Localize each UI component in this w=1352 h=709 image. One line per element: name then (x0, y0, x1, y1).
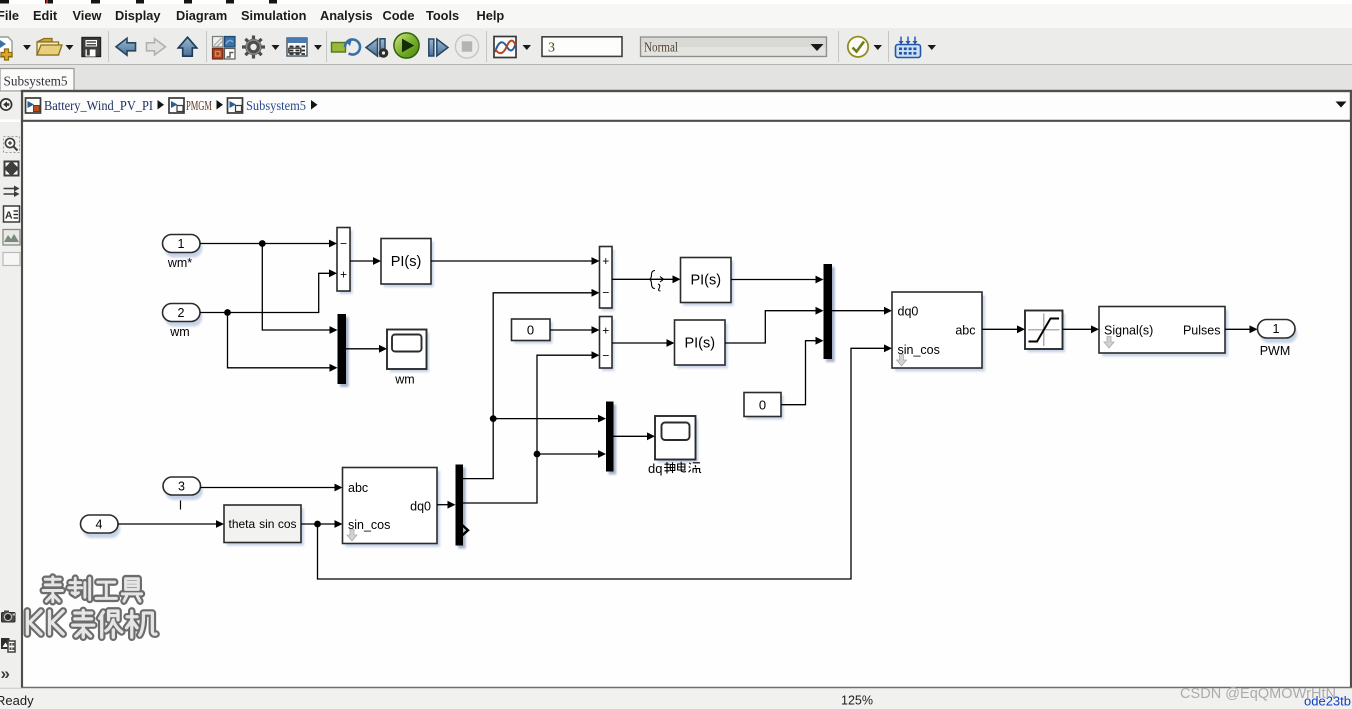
dq0 to abc transform block (892, 292, 985, 371)
wire: constant0 to sum3 plus (550, 329, 592, 331)
dropdown arrow (66, 45, 74, 50)
wire: PI1 to sum2 plus (431, 260, 592, 262)
icon: update model (332, 39, 360, 54)
svg-text:+: + (602, 254, 609, 268)
svg-text:PI(s): PI(s) (391, 254, 422, 270)
wire: inport1 to sum1 minus (200, 243, 330, 245)
tab Subsystem5 (0, 69, 74, 92)
svg-text:−: − (602, 286, 609, 300)
sum block 2 (600, 247, 615, 312)
svg-text:Ready: Ready (0, 693, 34, 708)
left sidebar (0, 122, 21, 688)
svg-text:Help: Help (477, 8, 505, 23)
wire: demux out1 up to sum2 minus (463, 293, 592, 479)
icon: gear (242, 36, 265, 59)
signal label marker on sum2-PI2 wire (650, 271, 664, 292)
sidebar icon: image grid (1, 638, 15, 652)
status bar (0, 689, 1352, 709)
sidebar icon: annotation A (4, 206, 20, 222)
svg-text:dq: dq (648, 461, 662, 476)
svg-text:Signal(s): Signal(s) (1104, 324, 1153, 338)
wire: branch q-current to mux3 bottom (537, 453, 599, 455)
svg-text:PI(s): PI(s) (690, 273, 721, 289)
breadcrumb model icon 3 (228, 98, 243, 113)
icon: forward arrow (disabled) (147, 39, 166, 55)
sidebar icon: zoom magnifier (4, 137, 20, 153)
sidebar icon: fit to view (4, 161, 20, 177)
svg-text:I: I (179, 499, 182, 513)
wire: mux2 to dq0 input (832, 310, 885, 312)
junction dots (224, 240, 540, 527)
icon: step forward (429, 39, 448, 56)
svg-text:Diagram: Diagram (176, 8, 227, 23)
svg-text:dq0: dq0 (410, 500, 431, 514)
dropdown arrow (523, 45, 532, 50)
wire: abcdq0 out to demux (437, 504, 448, 506)
sidebar icon: camera (2, 611, 16, 623)
svg-text:Display: Display (115, 8, 161, 23)
svg-text:sin cos: sin cos (259, 517, 296, 531)
mode combo box (641, 37, 827, 57)
svg-text:Simulation: Simulation (241, 8, 307, 23)
icon: open folder (37, 39, 62, 56)
scope dq currents (655, 416, 698, 463)
svg-text:PMGM: PMGM (186, 98, 212, 113)
outport 1 PWM (1258, 320, 1298, 359)
watermark KK recorder line2 (27, 610, 156, 637)
wire: inport4 to theta block (118, 523, 217, 525)
breadcrumb bar (24, 93, 1350, 120)
svg-text:File: File (0, 8, 19, 23)
svg-text:dq0: dq0 (898, 305, 919, 319)
sidebar icon: blank box (3, 253, 20, 266)
inport 2 (163, 304, 203, 340)
wire: inport2 to sum1 plus (200, 273, 330, 312)
icon: pacing keyboard (896, 37, 921, 58)
wire: sum1 to PI1 (350, 260, 374, 262)
PI controller 3 (675, 320, 728, 368)
svg-text:125%: 125% (841, 694, 873, 708)
svg-text:A: A (5, 210, 13, 222)
inport 3 (163, 477, 203, 513)
svg-text:1: 1 (178, 237, 185, 251)
svg-text:Normal: Normal (644, 40, 678, 55)
saturation block (1025, 311, 1065, 353)
icon: save floppy (82, 38, 101, 57)
svg-text:abc: abc (348, 481, 368, 495)
dropdown arrow (23, 45, 31, 50)
wire: branch theta down along bottom and up to dq0abc sin_cos (318, 348, 885, 579)
svg-text:1: 1 (1273, 322, 1280, 336)
constant 0 (d-ref) (512, 319, 553, 344)
sidebar icon: image (3, 230, 20, 246)
svg-text:»: » (1, 664, 10, 683)
scope label dq-axis current (CJK) (648, 461, 701, 476)
svg-text:3: 3 (178, 480, 185, 494)
wire: PWM generator to outport (1225, 328, 1250, 330)
svg-text:Edit: Edit (33, 8, 58, 23)
dropdown arrow (272, 45, 280, 50)
wire: demux out2 up to sum3 minus (463, 355, 592, 503)
svg-text:abc: abc (955, 324, 975, 338)
wire: abc out to saturation (982, 328, 1018, 330)
wire: PI2 to mux2 input1 (731, 279, 816, 281)
PI controller 1 (381, 239, 434, 288)
svg-text:wm: wm (394, 373, 414, 387)
tab strip (0, 65, 1352, 91)
wire: inport3 to abc input (201, 487, 336, 489)
svg-text:2: 2 (178, 306, 185, 320)
svg-text:Analysis: Analysis (320, 8, 373, 23)
mux 3 (dq current scope mux) (606, 402, 616, 475)
wire: saturation to PWM generator (1063, 328, 1092, 330)
svg-text:+: + (340, 268, 347, 282)
PWM generator block (1099, 307, 1228, 357)
icon: step back (366, 39, 388, 58)
inport 4 (81, 515, 121, 538)
arrowheads (216, 240, 1258, 528)
toolbar separators (109, 31, 889, 62)
wire: sum2 to PI2 (612, 278, 673, 280)
svg-text:PWM: PWM (1260, 344, 1291, 358)
demux (dq0 split) (456, 465, 469, 549)
icon: new model (0, 37, 12, 60)
wire: sum3 to PI3 (612, 342, 667, 344)
wire: constant0b up to mux2 input3 (781, 341, 816, 405)
title bar remnant dashes (0, 0, 277, 4)
svg-text:Subsystem5: Subsystem5 (246, 98, 306, 113)
mux 1 (wm scope mux) (338, 314, 349, 387)
sum block 3 (600, 317, 615, 372)
inport 1 (163, 235, 203, 271)
svg-text:Subsystem5: Subsystem5 (4, 74, 68, 89)
theta sin cos block (224, 505, 304, 546)
icon: check circle (848, 37, 868, 57)
icon: back arrow (116, 38, 136, 55)
wire: PI3 up to mux2 input2 (725, 311, 816, 343)
svg-text:−: − (602, 349, 609, 363)
breadcrumb model icon 1 (26, 98, 41, 113)
svg-text:wm*: wm* (167, 256, 192, 270)
svg-text:Tools: Tools (426, 8, 459, 23)
svg-text:−: − (340, 237, 347, 251)
svg-text:View: View (73, 8, 102, 23)
wire: theta to sin_cos input (301, 523, 335, 525)
icon: model settings table (287, 38, 307, 56)
wire: branch inport2 down to mux1 bottom (228, 313, 331, 368)
breadcrumb dropdown at right (1336, 102, 1347, 108)
wire: branch d-current to mux3 top (493, 418, 598, 420)
constant 0 (third input) (744, 393, 784, 420)
svg-text:4: 4 (96, 518, 103, 532)
icon: up arrow (178, 37, 197, 56)
svg-text:0: 0 (527, 323, 534, 338)
svg-text:CSDN @EqQMOWrHtN: CSDN @EqQMOWrHtN (1180, 686, 1336, 702)
breadcrumb back circle (0, 99, 11, 110)
scope wm (387, 330, 429, 387)
wire: mux1 to scope wm (346, 348, 380, 350)
svg-text:Battery_Wind_PV_PI: Battery_Wind_PV_PI (44, 98, 153, 113)
dropdown arrow (928, 45, 937, 50)
wire: branch inport1 down to mux1 top (262, 244, 330, 331)
svg-text:wm: wm (169, 325, 189, 339)
abc to dq0 transform block (343, 468, 441, 547)
svg-text:Pulses: Pulses (1183, 324, 1221, 338)
icon: library browser tiles (213, 37, 236, 60)
toolbar background (0, 27, 1352, 65)
icon: scope waves (494, 37, 516, 58)
sum block 1 (337, 228, 352, 295)
menu bar (0, 4, 1352, 27)
breadcrumb model icon 2 (169, 98, 184, 113)
mux 2 (dq0 inputs) (824, 264, 835, 362)
simulation time field (542, 37, 622, 57)
icon: stop (disabled) (455, 35, 478, 58)
svg-text:PI(s): PI(s) (684, 336, 715, 352)
wire: mux3 to scope dq (614, 435, 648, 437)
svg-text:3: 3 (548, 41, 555, 56)
dropdown arrow (314, 45, 322, 50)
PI controller 2 (681, 258, 734, 306)
dropdown arrow (874, 45, 883, 50)
sidebar icon: pan arrows (4, 186, 20, 198)
svg-text:+: + (602, 324, 609, 338)
icon: run (394, 33, 419, 58)
svg-text:theta: theta (229, 517, 256, 531)
canvas white area (23, 122, 1350, 687)
svg-text:0: 0 (759, 398, 766, 413)
svg-text:Code: Code (383, 8, 415, 23)
